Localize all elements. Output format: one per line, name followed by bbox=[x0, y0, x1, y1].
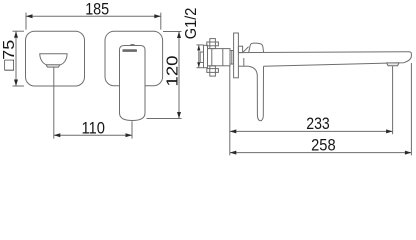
wall reference extension line bbox=[229, 66, 231, 155]
dim 185 extension line right bbox=[160, 13, 162, 30]
top fixing screw stem bbox=[210, 39, 216, 49]
body block seam 1 bbox=[211, 49, 213, 66]
dim square75 dimension line bbox=[15, 31, 17, 86]
dim G1/2 dimension line bbox=[198, 45, 200, 67]
svg-text:233: 233 bbox=[306, 114, 330, 133]
aerator (front view) bbox=[46, 65, 60, 67]
dim 120 dimension line bbox=[178, 32, 180, 119]
dim 185 dimension line bbox=[26, 15, 161, 17]
cartridge collar (side view) bbox=[238, 46, 242, 52]
inlet stub G1/2 (side view) bbox=[200, 52, 203, 63]
lever handle top bump (front view) bbox=[130, 45, 136, 46]
dim 110 extension line right (from lever centre) bbox=[131, 121, 133, 138]
dim 120 extension line bottom bbox=[147, 118, 182, 120]
body underside (side view) bbox=[238, 65, 248, 67]
top fixing screw flange bbox=[207, 42, 219, 46]
right escutcheon plate (front view) bbox=[105, 31, 163, 86]
collar-to-cap seam (diagonal) bbox=[243, 47, 249, 53]
spout (side view) bbox=[238, 52, 411, 66]
aerator (side view) bbox=[387, 63, 399, 66]
concealed body block (side view) bbox=[208, 49, 231, 66]
dim square75 tick bottom bbox=[13, 85, 25, 87]
brand label on lever bbox=[122, 49, 137, 52]
body seam under spout bbox=[243, 58, 245, 66]
dim 233 extension line (from aerator) bbox=[392, 66, 394, 134]
dim 233 dimension line bbox=[230, 130, 393, 132]
dim 110 dimension line bbox=[54, 134, 132, 136]
svg-text:□75: □75 bbox=[1, 40, 18, 71]
spout outlet bowl (front view) bbox=[40, 54, 67, 65]
body block seam 2 bbox=[222, 49, 224, 66]
dim G1/2 tick top bbox=[197, 44, 204, 46]
svg-text:185: 185 bbox=[85, 0, 109, 19]
svg-text:258: 258 bbox=[311, 136, 336, 155]
inlet flange (side view) bbox=[204, 45, 208, 67]
threaded section (side view) bbox=[230, 51, 234, 65]
dim square75 tick top bbox=[13, 30, 25, 32]
lever handle (front view) bbox=[120, 46, 146, 121]
dim 185 extension line left bbox=[25, 13, 27, 30]
svg-text:110: 110 bbox=[81, 118, 105, 137]
dim 258 extension line (from spout tip) bbox=[410, 63, 412, 155]
hanging lever (side view) bbox=[248, 66, 263, 121]
bottom fixing screw stem bbox=[210, 66, 216, 76]
dim G1/2 tick bottom bbox=[197, 67, 204, 69]
dim 110 extension line left (from spout centre) bbox=[53, 68, 55, 139]
dim 120 extension line top bbox=[163, 31, 182, 33]
wall plate (side view) bbox=[234, 33, 239, 78]
left escutcheon plate (front view) bbox=[26, 31, 85, 86]
svg-text:120: 120 bbox=[164, 55, 181, 86]
svg-text:G1/2: G1/2 bbox=[183, 8, 200, 40]
bottom fixing screw flange bbox=[207, 69, 219, 73]
dim 258 dimension line bbox=[230, 152, 412, 154]
lever cap (side view) bbox=[249, 43, 264, 52]
